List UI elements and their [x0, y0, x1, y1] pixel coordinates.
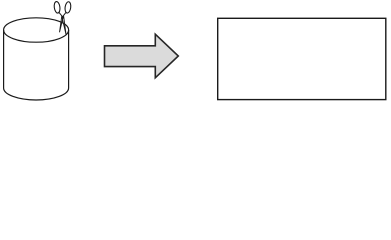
scissors blade right [62, 17, 66, 35]
scissors handle-link right [62, 12, 67, 18]
scissors blade left [60, 16, 64, 32]
scissors handle-link left [59, 12, 64, 18]
cylinder top ellipse [4, 18, 69, 42]
cylinder left side wire [3, 30, 5, 88]
block arrow [105, 34, 179, 78]
scissors handle left [54, 1, 61, 13]
scissors handle right [64, 1, 71, 13]
cylinder right side wire [68, 30, 70, 88]
cylinder bottom arc [4, 88, 69, 100]
rectangle (unrolled cylinder) [218, 18, 386, 99]
